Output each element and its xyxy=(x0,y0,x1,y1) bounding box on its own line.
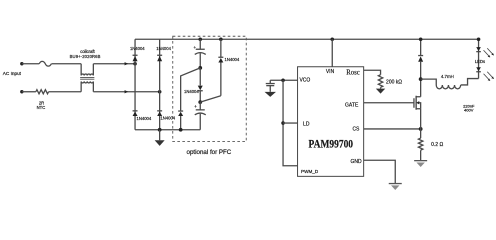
svg-text:PWM_D: PWM_D xyxy=(301,169,319,174)
node VCC bus xyxy=(281,78,285,82)
arrow on top AC wire xyxy=(125,62,129,65)
wire rail to VIN xyxy=(331,39,333,67)
LED LED2 xyxy=(476,67,494,81)
wire left branch to bottom rail xyxy=(180,116,182,130)
diode D6 valley-fill middle 1N4004 xyxy=(184,68,203,102)
node switch-inductor tap xyxy=(419,77,423,81)
resistor R2 sense 0.2 ohm xyxy=(418,138,422,150)
wire NTC to choke xyxy=(49,91,82,93)
node left branch bottom xyxy=(179,128,183,132)
node rail-cap1 xyxy=(198,37,202,41)
svg-text:LD: LD xyxy=(303,122,310,128)
diode D3 1N4004 bottom-left xyxy=(133,111,152,121)
svg-text:1N4004: 1N4004 xyxy=(137,116,152,121)
svg-text:BU9+-2020R6B: BU9+-2020R6B xyxy=(70,54,101,59)
svg-text:LEDs: LEDs xyxy=(475,59,485,64)
node n3 xyxy=(198,100,202,104)
diode D7 valley-fill right 1N4004 xyxy=(218,39,240,96)
svg-text:1N4004: 1N4004 xyxy=(160,116,175,121)
node rail freewheel xyxy=(419,37,423,41)
ground sense earth xyxy=(414,150,427,167)
op-amp U1 PAM99700 box xyxy=(298,67,364,177)
wire fuse to choke xyxy=(51,63,81,65)
svg-text:+: + xyxy=(194,104,197,109)
capacitor C1 polarized xyxy=(193,39,205,68)
wire AC line top left xyxy=(22,63,39,65)
svg-text:GND: GND xyxy=(350,159,362,165)
wire bridge left vertical xyxy=(134,39,136,130)
transistor Q1 n-mosfet xyxy=(414,96,421,110)
common-mode choke L1 top winding xyxy=(81,64,93,76)
wire choke to bridge bottom xyxy=(93,91,159,93)
node bridge AC top xyxy=(133,62,137,66)
capacitor C3 VCC bypass xyxy=(266,80,275,92)
dashed box optional PFC xyxy=(173,36,247,141)
diode D5 valley-fill left xyxy=(178,111,183,116)
ground VCC cap xyxy=(265,92,276,97)
node CS sense xyxy=(419,127,423,131)
resistor NTC 2R xyxy=(36,90,49,94)
wire tap to inductor xyxy=(421,79,437,85)
diode D8 freewheel xyxy=(418,39,423,97)
svg-text:400V: 400V xyxy=(464,108,474,113)
svg-text:AC Input: AC Input xyxy=(3,71,22,76)
AC input terminal bottom xyxy=(20,90,23,93)
wire choke to bridge top xyxy=(93,63,135,65)
wire GATE pin to mosfet xyxy=(364,102,414,104)
ground Rosc xyxy=(376,87,385,93)
node rail LED corner xyxy=(477,37,481,41)
svg-text:4.7mH: 4.7mH xyxy=(441,74,454,79)
wire CS pin right xyxy=(364,128,421,130)
svg-text:VIN: VIN xyxy=(326,69,335,75)
svg-text:VCO: VCO xyxy=(299,77,310,83)
svg-text:CS: CS xyxy=(352,127,360,133)
inductor L2 xyxy=(436,85,460,89)
svg-text:1N4004: 1N4004 xyxy=(225,57,240,62)
svg-text:0.2 Ω: 0.2 Ω xyxy=(431,142,443,148)
diode D4 1N4004 bottom-right xyxy=(157,111,176,121)
capacitor C2 polarized xyxy=(194,102,206,130)
common-mode choke L1 bottom winding xyxy=(81,81,93,91)
wire inductor to LED string xyxy=(461,79,479,85)
wire source to sense xyxy=(420,109,422,138)
svg-text:1N4004: 1N4004 xyxy=(130,46,145,51)
svg-text:1N4004: 1N4004 xyxy=(156,46,171,51)
node rail VIN xyxy=(330,37,334,41)
diode D2 1N4004 top-right xyxy=(156,46,171,61)
svg-text:GATE: GATE xyxy=(345,102,359,108)
wire DC bus top rail xyxy=(135,38,479,40)
wire LD pin xyxy=(283,122,298,124)
ground GND pin earth xyxy=(389,184,402,190)
node bridge AC bottom xyxy=(158,90,162,94)
LED LED1 xyxy=(476,47,494,57)
wire right branch diagonal to n3 xyxy=(200,96,221,102)
node LD tap xyxy=(281,121,285,125)
wire GND pin right xyxy=(364,160,396,183)
wire VCC pin left xyxy=(270,79,297,81)
diode D1 1N4004 top-left xyxy=(130,46,145,61)
node rail right branch xyxy=(219,37,223,41)
svg-text:NTC: NTC xyxy=(37,105,46,110)
svg-text:1N4004: 1N4004 xyxy=(184,89,199,94)
svg-text:PAM99700: PAM99700 xyxy=(309,136,354,150)
wire DC bus bottom rail xyxy=(135,129,200,131)
AC input terminal top xyxy=(20,62,23,65)
wire bridge right vertical xyxy=(159,39,161,130)
ground bridge xyxy=(155,130,165,146)
wire AC line bottom left xyxy=(22,91,36,93)
svg-text:optional for PFC: optional for PFC xyxy=(187,149,232,156)
node bottom rail at ground xyxy=(158,128,162,132)
wire Rosc pin right xyxy=(364,70,381,75)
wire n1 diagonal to left branch xyxy=(181,68,201,111)
fuse F1 xyxy=(39,61,51,66)
arrow on bottom AC wire xyxy=(125,90,129,93)
svg-text:+: + xyxy=(193,45,196,50)
wire VCC bus vertical xyxy=(283,80,298,166)
svg-text:Rosc: Rosc xyxy=(346,68,360,77)
node n1 xyxy=(198,66,202,70)
resistor R1 200k xyxy=(378,75,382,88)
svg-text:200 kΩ: 200 kΩ xyxy=(386,79,402,85)
wire LED string vertical xyxy=(478,39,480,78)
common-mode choke L1 core xyxy=(80,77,94,79)
